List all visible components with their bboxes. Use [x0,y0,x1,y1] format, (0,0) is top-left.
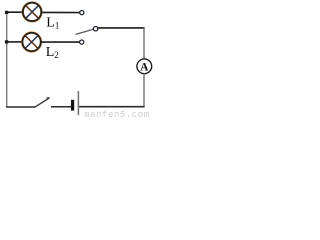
svg-text:A: A [140,62,149,74]
switch S2 blade [35,98,50,107]
wire left vertical bus [6,12,8,107]
wire bottom left segment [6,106,35,108]
battery short plate (-) [71,100,74,111]
wire L2 branch right segment [41,41,80,43]
lamp L1 [22,2,42,22]
switch S1 contact b (lower throw) [80,40,84,44]
wire L2 branch left segment [7,41,23,43]
switch S1 pole [93,27,97,31]
svg-text:manfen5.com: manfen5.com [84,110,149,120]
wire battery to switch S2 [51,106,71,108]
switch S1 blade [76,29,94,34]
wire right vertical lower segment [143,74,145,107]
junction top-left node [5,11,8,14]
lamp L2 [22,32,42,52]
ammeter A [137,59,152,74]
wire L1 branch right segment [41,11,79,13]
wire L1 branch left segment [7,11,24,13]
wire pole to top-right corner [98,27,145,29]
wire bottom right segment (corner to battery) [79,106,144,108]
switch S1 contact a (upper throw) [80,11,84,15]
wire right vertical upper segment [143,28,145,59]
battery long plate (+) [77,91,79,115]
junction mid-left node [5,40,8,43]
